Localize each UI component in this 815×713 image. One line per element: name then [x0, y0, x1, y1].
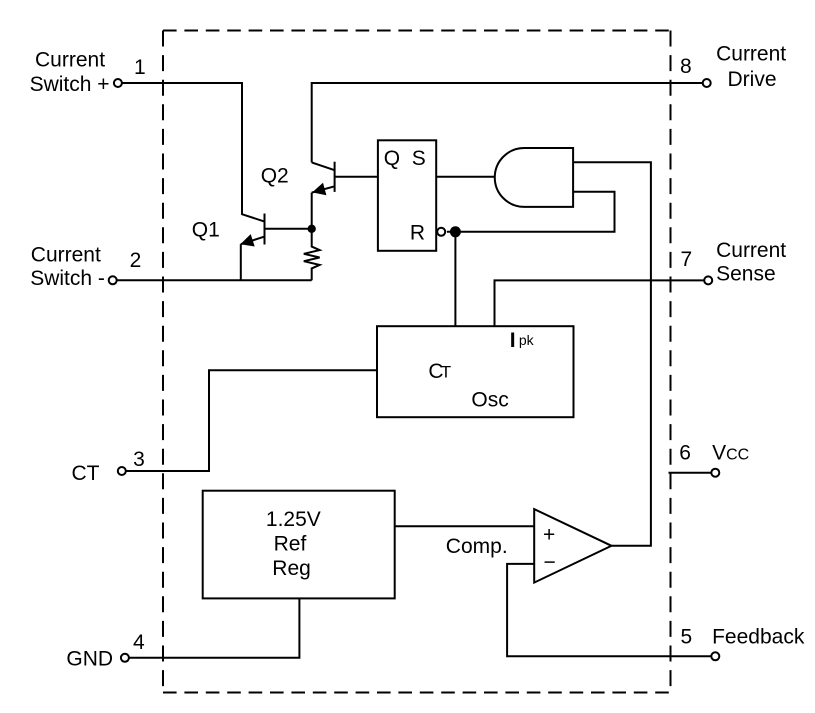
svg-text:Current: Current — [716, 42, 786, 65]
svg-text:1.25V: 1.25V — [266, 508, 321, 531]
svg-text:Q2: Q2 — [261, 165, 289, 188]
svg-text:8: 8 — [680, 55, 692, 78]
svg-text:2: 2 — [130, 249, 142, 272]
svg-text:R: R — [410, 221, 425, 244]
svg-text:3: 3 — [133, 448, 145, 471]
svg-text:Switch +: Switch + — [30, 73, 110, 96]
svg-text:4: 4 — [133, 631, 145, 654]
svg-text:Current: Current — [31, 243, 101, 266]
svg-text:5: 5 — [681, 626, 693, 649]
svg-text:Switch -: Switch - — [30, 267, 105, 290]
svg-text:1: 1 — [134, 56, 146, 79]
svg-text:Drive: Drive — [728, 68, 777, 91]
svg-text:pk: pk — [519, 332, 535, 348]
svg-text:6: 6 — [679, 442, 691, 465]
svg-text:Comp.: Comp. — [446, 535, 508, 558]
svg-text:T: T — [441, 363, 451, 382]
svg-text:+: + — [543, 524, 555, 547]
svg-text:Reg: Reg — [272, 557, 311, 580]
svg-text:7: 7 — [681, 248, 693, 271]
svg-text:Sense: Sense — [716, 263, 776, 286]
svg-text:GND: GND — [66, 648, 113, 671]
svg-text:Current: Current — [716, 239, 786, 262]
svg-text:S: S — [412, 147, 426, 170]
svg-text:Current: Current — [35, 49, 105, 72]
svg-text:CT: CT — [72, 462, 100, 485]
svg-text:Q1: Q1 — [192, 219, 220, 242]
svg-text:Osc: Osc — [471, 388, 508, 411]
svg-text:Ref: Ref — [274, 533, 307, 556]
svg-text:I: I — [510, 329, 516, 352]
svg-text:−: − — [544, 551, 556, 574]
svg-text:Q: Q — [384, 147, 400, 170]
svg-text:Feedback: Feedback — [712, 626, 805, 649]
